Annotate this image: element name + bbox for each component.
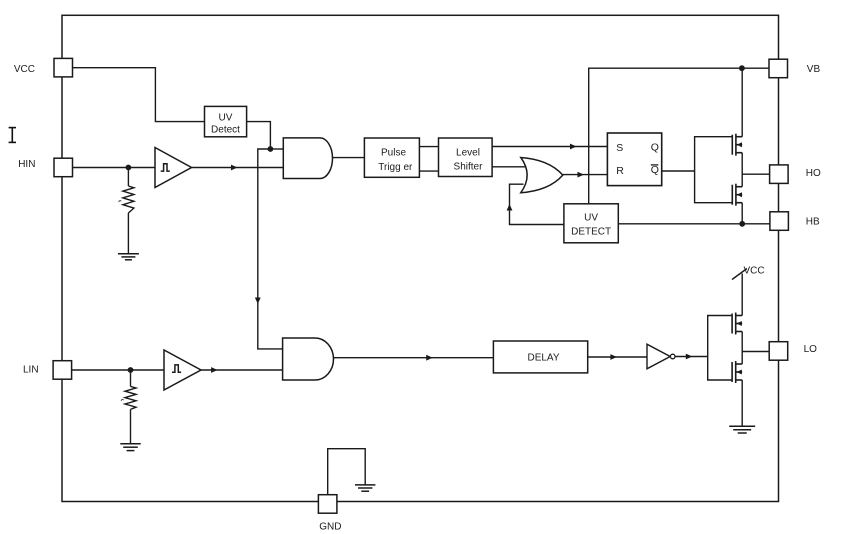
Schmitt buffer U3 <box>164 350 201 390</box>
svg-text:Pulse: Pulse <box>381 148 406 159</box>
wire inverter U4 to gate bracket LO <box>675 356 708 358</box>
svg-text:UV: UV <box>584 213 598 224</box>
wire resistor R2 to ground <box>130 409 132 443</box>
inverter U4 <box>647 344 675 369</box>
svg-text:VB: VB <box>807 64 821 75</box>
svg-text:HO: HO <box>806 168 821 179</box>
transistor Q2 (HO low) <box>732 184 742 206</box>
svg-text:LIN: LIN <box>23 365 39 376</box>
svg-text:VCC: VCC <box>14 64 35 75</box>
svg-text:UV: UV <box>219 113 233 124</box>
pin LIN <box>53 361 72 380</box>
pin VB <box>769 59 788 77</box>
AND gate U6 (low side) <box>283 338 334 380</box>
wire LO output <box>742 351 769 353</box>
arrow UV DETECT feedback (up) <box>507 204 513 211</box>
svg-text:R: R <box>616 165 624 177</box>
wire node A to AND1 top input <box>270 148 283 150</box>
pin GND <box>318 495 337 514</box>
svg-text:Trigg er: Trigg er <box>378 162 413 173</box>
svg-text:Q: Q <box>651 164 659 176</box>
pin HB <box>770 212 789 231</box>
wire GND pin to substrate ground <box>328 449 366 495</box>
wire Level Shifter to OR gate top input <box>492 166 525 168</box>
wire OR gate output to latch R input <box>563 174 608 176</box>
wire Q1 drain to VB node <box>741 68 743 137</box>
wire HIN pin to Schmitt U2 input <box>73 167 156 169</box>
UV Detect box (VCC side) <box>205 106 247 136</box>
arrow DELAY to inverter <box>610 354 617 360</box>
wire LIN node to resistor R2 <box>130 370 132 386</box>
wire resistor R1 to ground <box>127 213 129 254</box>
svg-text:HB: HB <box>806 217 820 228</box>
transistor Q3 (LO high) <box>732 313 742 335</box>
wire Schmitt U2 output to AND1 bottom input <box>192 167 284 169</box>
svg-text:VCC: VCC <box>744 266 765 277</box>
resistor R1 value mark <box>119 201 122 202</box>
ground (HIN resistor) <box>118 254 139 260</box>
wire HIN node to resistor R1 <box>127 168 129 187</box>
wire VCC pin to UV Detect <box>73 68 205 122</box>
DELAY box <box>493 341 587 373</box>
AND gate U5 (high side) <box>283 138 332 179</box>
pin VCC <box>54 58 73 77</box>
wire Level Shifter to latch S input <box>492 146 607 148</box>
svg-text:Q: Q <box>651 141 659 153</box>
junction LIN resistor node <box>128 367 134 373</box>
svg-text:DETECT: DETECT <box>571 227 611 238</box>
svg-text:GND: GND <box>319 521 341 532</box>
arrow LIN signal <box>211 367 218 373</box>
wire VCC slash <box>732 269 747 280</box>
wire HO output <box>742 173 769 175</box>
pin LO <box>769 342 788 361</box>
svg-text:Detect: Detect <box>211 124 240 135</box>
arrow AND2 to DELAY <box>426 355 433 361</box>
junction HB node <box>739 221 745 227</box>
Level Shifter box <box>439 138 493 177</box>
resistor R2 value mark <box>121 399 124 400</box>
svg-text:HIN: HIN <box>18 159 35 170</box>
wire UV DETECT feedback to OR gate input <box>510 184 564 224</box>
wire Schmitt U3 output to AND2 bottom input <box>201 369 283 371</box>
wire AND2 output to DELAY <box>334 357 494 359</box>
I-beam cursor artifact <box>9 128 16 143</box>
OR gate U7 <box>521 158 563 193</box>
Schmitt buffer U2 <box>155 148 192 188</box>
pin HO <box>770 165 789 184</box>
arrow inverter to LO gates <box>686 354 693 360</box>
wire node A branch down to AND2 top input <box>258 149 283 349</box>
arrow UV gate to AND2 (down) <box>255 298 261 305</box>
ground (LO stage) <box>729 426 755 433</box>
SR latch U8 <box>607 133 661 186</box>
wire Q3 source to Q4 drain <box>741 332 743 365</box>
wire DELAY to inverter U4 <box>588 356 647 358</box>
arrow S set signal <box>570 144 577 150</box>
transistor Q4 (LO low) <box>732 361 742 383</box>
arrow HIN signal <box>231 165 238 171</box>
wire VCC rail to Q3 drain <box>741 274 743 316</box>
resistor R2 <box>125 386 136 409</box>
arrow R reset signal <box>578 172 585 178</box>
wire gate bracket LO pair <box>708 316 732 381</box>
wire Q4 source to ground <box>741 380 743 426</box>
junction HIN resistor node <box>125 165 131 171</box>
IC package border <box>62 15 779 501</box>
junction node A (UV gate branch) <box>268 146 274 152</box>
svg-text:DELAY: DELAY <box>527 352 559 363</box>
wire latch Q-bar output to gate bracket <box>662 170 695 172</box>
wire Pulse Trigger to Level Shifter top <box>419 146 438 148</box>
svg-text:Level: Level <box>456 147 480 158</box>
Pulse Trigger box <box>364 138 419 177</box>
wire UV DETECT to HB pin <box>618 223 770 225</box>
wire Q2 source to HB rail <box>741 203 743 224</box>
transistor Q1 (HO high) <box>732 134 742 156</box>
wire gate bracket HO pair <box>695 137 733 203</box>
ground (GND pin) <box>355 485 375 491</box>
wire UV Detect output to node A <box>247 122 271 149</box>
svg-text:S: S <box>616 142 623 154</box>
svg-text:LO: LO <box>804 344 818 355</box>
wire AND1 output to Pulse Trigger <box>333 157 365 159</box>
svg-text:Shifter: Shifter <box>454 162 484 173</box>
wire LIN pin to Schmitt U3 input <box>72 369 165 371</box>
wire VB rail <box>589 68 769 204</box>
wire Q1 source to Q2 drain <box>741 153 743 187</box>
wire Pulse Trigger to Level Shifter bottom <box>419 170 438 172</box>
ground (LIN resistor) <box>120 444 140 451</box>
pin HIN <box>54 158 73 177</box>
UV DETECT box (bootstrap side) <box>564 204 618 243</box>
junction VB node <box>739 65 745 71</box>
resistor R1 <box>123 186 134 213</box>
